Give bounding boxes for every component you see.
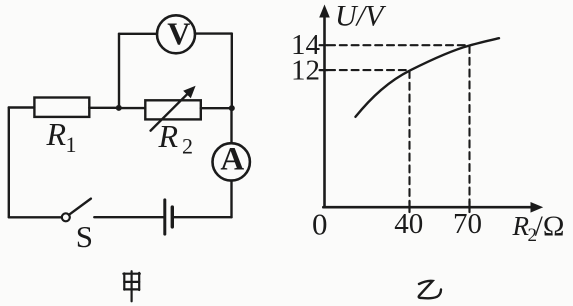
dashed guide 70 vertical [468,46,470,204]
node left junction [116,105,122,111]
svg-text:40: 40 [394,208,423,240]
caption 甲 (hand-drawn strokes) [123,271,139,301]
voltmeter V circle [157,15,195,53]
rheostat arrow shaft [151,91,191,130]
wire voltmeter branch left horizontal [119,33,157,35]
tick 14 [320,44,328,46]
svg-text:2: 2 [182,134,193,159]
y-axis U/V [323,13,326,207]
node right junction [229,105,235,111]
wire right rail up to voltmeter branch [231,34,233,109]
axis label R2/Ohm [512,211,565,247]
wire left rail vertical [8,108,10,218]
wire R1 to left junction [89,107,119,109]
y-axis arrow head [319,5,330,18]
wire top-left horizontal to R1 [9,106,35,108]
svg-text:70: 70 [453,208,482,240]
wire battery to switch [94,216,163,218]
U-R2 curve [356,38,500,117]
svg-text:12: 12 [291,54,320,86]
wire switch to bottom left corner [9,216,62,218]
ammeter A circle [213,143,250,180]
svg-text:U/V: U/V [335,0,387,32]
dashed guide 12 horizontal [328,69,410,71]
wire ammeter down to bottom right corner [230,181,232,218]
switch S pivot circle [62,213,70,221]
svg-text:A: A [220,142,244,178]
svg-text:S: S [76,219,93,254]
svg-text:R: R [46,116,67,152]
svg-text:V: V [167,16,190,52]
wire voltmeter branch left vertical [118,34,120,107]
battery long plate [163,200,166,234]
dashed guide 40 vertical [408,71,410,204]
svg-text:R: R [158,118,179,154]
wire bottom right horizontal to battery [173,216,231,218]
wire voltmeter branch right horizontal [195,32,232,34]
resistor R2 (rheostat box) [145,100,201,119]
svg-text:0: 0 [312,207,328,242]
x-axis R2 [323,206,533,209]
svg-text:1: 1 [66,132,77,157]
tick 12 [320,69,328,71]
label R2 [158,118,194,159]
battery short plate [171,207,174,227]
wire R2 to right junction [201,107,232,109]
x-axis arrow head [531,202,544,213]
wire right junction down to ammeter [230,108,232,143]
tick 40 [408,201,410,212]
dashed guide 14 horizontal [328,44,470,46]
rheostat arrow head [183,86,195,99]
resistor R1 [34,98,89,117]
caption 乙 (hand-drawn stroke) [419,281,441,298]
tick 70 [468,201,470,212]
switch S lever [69,199,91,215]
label R1 [46,116,77,157]
wire junction to R2 [119,107,146,109]
svg-text:/Ω: /Ω [535,211,565,243]
